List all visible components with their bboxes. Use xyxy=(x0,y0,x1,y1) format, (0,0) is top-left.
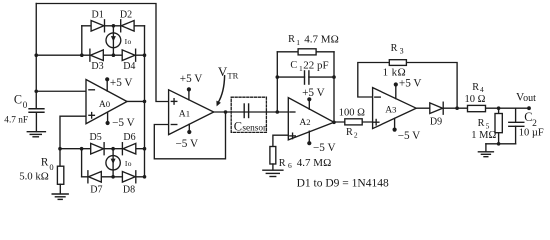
wire bridge1 left vertical xyxy=(81,26,83,55)
wire A0 output vertical xyxy=(144,26,146,177)
resistor R5 xyxy=(495,114,502,133)
wire bridge2 bottom row xyxy=(82,176,145,178)
svg-text:o: o xyxy=(128,37,132,46)
node Vout terminal xyxy=(527,106,531,110)
diode D4 xyxy=(122,49,135,61)
op-amp A0 xyxy=(86,79,127,123)
junction bridge2 left top xyxy=(80,147,84,151)
svg-text:D4: D4 xyxy=(123,61,135,72)
svg-text:−5 V: −5 V xyxy=(313,142,336,154)
wire bridge2 top row xyxy=(60,148,145,150)
svg-text:C: C xyxy=(234,120,242,134)
svg-text:2: 2 xyxy=(354,131,358,140)
current source Io upper xyxy=(106,33,121,48)
node A2 -5V xyxy=(307,141,311,145)
svg-text:R: R xyxy=(472,82,479,93)
svg-text:TR: TR xyxy=(227,70,238,80)
ground under R6 xyxy=(272,164,274,170)
resistor R0 xyxy=(57,166,63,184)
svg-text:0: 0 xyxy=(49,162,53,172)
wire A1 feedback loop xyxy=(154,112,225,159)
wire R1C1 right vertical xyxy=(333,52,335,122)
junction ground rail xyxy=(497,142,501,146)
ground at output xyxy=(485,144,487,152)
wire A3 output row through D9 R4 to Vout xyxy=(416,107,529,109)
svg-text:22 pF: 22 pF xyxy=(303,59,328,71)
diode D9 xyxy=(430,102,443,114)
diode D2 xyxy=(121,20,134,32)
wire A2 noninverting input to R6 xyxy=(273,135,288,146)
node A2 +5V xyxy=(307,97,311,101)
svg-text:D9: D9 xyxy=(430,116,442,127)
junction bridge1 bottom center xyxy=(112,53,116,57)
junction bridge2 bottom center xyxy=(111,175,115,179)
wire bridge1 top row xyxy=(82,25,145,27)
svg-text:D7: D7 xyxy=(90,185,102,196)
svg-text:−5 V: −5 V xyxy=(398,130,421,142)
svg-text:4.7 MΩ: 4.7 MΩ xyxy=(304,33,338,45)
dashed sensor box xyxy=(231,97,266,132)
diode D3 xyxy=(90,49,103,61)
svg-text:1: 1 xyxy=(296,38,300,47)
svg-text:1 MΩ: 1 MΩ xyxy=(471,130,496,141)
junction C1 right xyxy=(332,75,336,79)
svg-text:R: R xyxy=(41,157,49,169)
svg-text:1: 1 xyxy=(186,109,190,119)
svg-text:100 Ω: 100 Ω xyxy=(339,107,365,118)
svg-text:D6: D6 xyxy=(123,132,135,143)
svg-text:−5 V: −5 V xyxy=(112,117,135,129)
junction bridge1 right bottom xyxy=(143,53,147,57)
svg-text:D1: D1 xyxy=(92,9,104,20)
wire current source 2 stem xyxy=(112,149,114,177)
junction sensor node xyxy=(276,110,280,114)
svg-text:−5 V: −5 V xyxy=(176,138,199,150)
wire A1 output row to A2 inverting input xyxy=(214,111,289,113)
svg-text:1 kΩ: 1 kΩ xyxy=(383,66,407,78)
wire C1 leads xyxy=(277,76,304,78)
svg-text:+5 V: +5 V xyxy=(180,73,203,85)
svg-text:10 Ω: 10 Ω xyxy=(465,94,486,105)
wire current source 1 stem xyxy=(112,26,114,55)
svg-text:R: R xyxy=(288,34,295,45)
svg-text:R: R xyxy=(478,118,485,129)
junction C1 left xyxy=(276,75,280,79)
resistor R1 xyxy=(298,49,316,55)
svg-text:out: out xyxy=(523,93,536,104)
svg-text:R: R xyxy=(279,158,286,169)
wire A3 feedback through R3 xyxy=(358,63,390,98)
svg-text:D8: D8 xyxy=(123,185,135,196)
svg-text:0: 0 xyxy=(106,99,111,109)
svg-text:R: R xyxy=(346,127,353,138)
svg-text:4: 4 xyxy=(480,85,484,94)
junction bridge2 top center xyxy=(111,147,115,151)
wire A0 inverting input xyxy=(36,90,86,92)
diode D6 xyxy=(122,143,135,155)
node A0 -5V xyxy=(106,121,110,125)
node A3 -5V xyxy=(393,128,397,132)
junction A2 output xyxy=(332,121,336,125)
svg-text:4.7 MΩ: 4.7 MΩ xyxy=(297,157,331,169)
junction R0 top xyxy=(58,147,62,151)
svg-text:3: 3 xyxy=(392,105,396,115)
resistor R2 xyxy=(345,119,362,125)
wire bridge1 bottom row xyxy=(36,54,144,56)
op-amp A1 xyxy=(169,89,214,134)
wire top rail to A1 noninverting input xyxy=(36,4,168,102)
svg-text:0: 0 xyxy=(23,100,28,110)
wire R5 stems xyxy=(498,108,500,113)
arrow VTR pointer xyxy=(218,76,224,103)
diode D1 xyxy=(91,20,104,32)
wire R1 leads xyxy=(277,51,298,53)
junction R3 feedback xyxy=(455,106,459,110)
junction A0 output xyxy=(143,100,147,104)
ground under R0 xyxy=(59,184,61,194)
node A1 +5V xyxy=(187,87,191,91)
current source Io lower xyxy=(106,156,120,170)
wire bridge2 left vertical xyxy=(81,149,83,177)
wire A2 output row to A3 noninverting input xyxy=(334,121,373,123)
node A1 -5V xyxy=(187,130,191,134)
svg-text:C: C xyxy=(14,93,22,107)
junction bridge1 left bottom xyxy=(80,53,84,57)
junction R4 R5 xyxy=(497,106,501,110)
svg-text:+5 V: +5 V xyxy=(110,77,133,89)
svg-text:D2: D2 xyxy=(120,9,132,20)
svg-text:D5: D5 xyxy=(90,132,102,143)
wire C2 stems xyxy=(515,108,517,122)
node A0 +5V xyxy=(105,77,109,81)
diode D7 xyxy=(88,171,101,183)
svg-text:3: 3 xyxy=(400,46,404,55)
wire R1C1 left vertical xyxy=(276,52,278,112)
wire A0 noninverting input to R0 xyxy=(60,116,86,166)
junction A1 feedback xyxy=(224,110,228,114)
resistor R4 xyxy=(468,105,486,111)
ground under C0 xyxy=(27,132,45,137)
svg-text:V: V xyxy=(218,64,228,79)
capacitor C1 xyxy=(305,71,309,84)
resistor R6 xyxy=(270,147,276,165)
svg-text:6: 6 xyxy=(288,161,292,170)
svg-text:5.0 kΩ: 5.0 kΩ xyxy=(19,170,49,182)
svg-text:R: R xyxy=(391,43,398,54)
op-amp A2 xyxy=(288,98,334,144)
diode D8 xyxy=(122,171,135,183)
wire A0 output xyxy=(127,100,145,102)
diode D5 xyxy=(91,143,104,155)
svg-text:+5 V: +5 V xyxy=(399,78,422,90)
svg-text:o: o xyxy=(128,159,132,168)
capacitor C0 xyxy=(29,109,44,113)
op-amp A3 xyxy=(373,85,417,130)
svg-text:+5 V: +5 V xyxy=(302,87,325,99)
junction A0 inverting input xyxy=(34,89,38,93)
capacitor C2 xyxy=(509,122,524,126)
svg-text:2: 2 xyxy=(306,117,310,127)
capacitor Csensor xyxy=(244,104,248,118)
junction bridge2 right bottom xyxy=(143,175,147,179)
svg-text:D1 to D9 = 1N4148: D1 to D9 = 1N4148 xyxy=(297,177,389,189)
node A3 +5V xyxy=(394,82,398,86)
junction bridge1 bottom left xyxy=(34,53,38,57)
resistor R3 xyxy=(389,60,406,66)
svg-text:10 µF: 10 µF xyxy=(519,128,544,139)
svg-text:sensor: sensor xyxy=(242,124,267,134)
svg-text:D3: D3 xyxy=(91,61,103,72)
junction bridge1 top center xyxy=(112,24,116,28)
wire left node vertical xyxy=(35,4,37,109)
junction bridge2 right top xyxy=(143,147,147,151)
wire output ground rail xyxy=(486,143,516,145)
svg-text:C: C xyxy=(290,60,297,71)
svg-text:4.7 nF: 4.7 nF xyxy=(4,115,28,125)
